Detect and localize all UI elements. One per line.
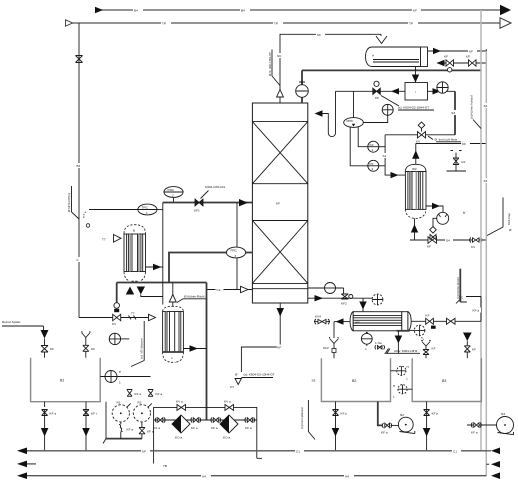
- dosing pump R1: [112, 401, 133, 439]
- vessel KB1 (ion exchanger): [163, 306, 184, 362]
- svg-text:KV a: KV a: [224, 400, 231, 404]
- wire feed line into TRC oval: [84, 210, 138, 228]
- svg-text:KO a: KO a: [223, 436, 230, 440]
- control valve on VE-Wasser line: [112, 303, 121, 326]
- wire exchanger W3 right bottom line with instrument: [410, 325, 425, 336]
- instrument circle above B2: [361, 332, 372, 351]
- wire bottom header TB stubs: [17, 461, 500, 468]
- svg-text:FRC: FRC: [231, 249, 238, 253]
- svg-text:S4: S4: [484, 179, 488, 183]
- svg-text:(s) Kühlw-Vorlauf: (s) Kühlw-Vorlauf: [470, 95, 474, 119]
- instrument oval FRC 3: [226, 247, 245, 258]
- vessel W2 (vertical condenser): [405, 164, 426, 218]
- label Kuehlwasser connector bottom: [300, 400, 315, 440]
- wire bottom header A4: [17, 472, 500, 479]
- fitting 2: [191, 418, 201, 431]
- funnel vent on tank B1 top right: [81, 332, 95, 358]
- wire oval to downcomer: [157, 209, 163, 211]
- svg-text:2: 2: [372, 167, 374, 171]
- node feed arrow into column: [239, 199, 248, 206]
- svg-text:KF: KF: [277, 346, 281, 350]
- wire downcomer x162.8: [162, 203, 164, 305]
- wire vertical x385 to condenser inlet: [382, 135, 406, 179]
- vent to atmosphere (right): [447, 151, 467, 172]
- instrument oval PRC 2: [164, 187, 183, 203]
- svg-text:P: P: [119, 370, 121, 374]
- svg-text:(s) K004-D2-10H4-DT: (s) K004-D2-10H4-DT: [398, 106, 429, 110]
- svg-text:KF1: KF1: [194, 209, 200, 213]
- label Abw connector: [385, 349, 421, 354]
- svg-text:KF a: KF a: [154, 426, 161, 430]
- svg-text:KF a: KF a: [473, 309, 480, 313]
- svg-text:KF: KF: [427, 245, 431, 249]
- svg-text:KF a: KF a: [245, 426, 252, 430]
- svg-text:(s) VE-Wasser: (s) VE-Wasser: [140, 338, 144, 359]
- tank B1: [31, 358, 101, 402]
- node exchanger B bottom arrows: [126, 287, 145, 295]
- filter skid frame: [154, 407, 262, 463]
- svg-text:KF: KF: [91, 347, 95, 351]
- svg-text:B1: B1: [60, 379, 64, 383]
- wire dark circulation from column left: [117, 253, 253, 421]
- svg-text:C1: C1: [453, 450, 457, 454]
- svg-text:A4: A4: [345, 475, 349, 479]
- svg-text:1: 1: [119, 381, 121, 385]
- svg-text:KF: KF: [375, 96, 379, 100]
- svg-text:TP: TP: [162, 22, 166, 26]
- wire vessel outlet right: [183, 345, 206, 351]
- svg-text:KF: KF: [432, 347, 436, 351]
- wire left feed line Reinst-Spuelw to tank B1: [2, 320, 54, 358]
- svg-text:SC: SC: [277, 54, 282, 58]
- level instrument LSA2 between tanks: [393, 384, 412, 399]
- svg-text:KV4: KV4: [315, 315, 321, 319]
- svg-text:W3: W3: [355, 321, 360, 325]
- wire feed downcomer x237: [236, 203, 238, 290]
- svg-text:KF a: KF a: [147, 430, 154, 434]
- box K1 (separator box): [405, 83, 428, 101]
- label 604-Cap connector: [487, 198, 512, 236]
- svg-text:Ø S: 300-H49-ST: Ø S: 300-H49-ST: [268, 52, 272, 76]
- svg-text:1: 1: [372, 148, 374, 152]
- svg-text:K004-C05-101: K004-C05-101: [205, 185, 225, 189]
- svg-text:KF a: KF a: [191, 426, 198, 430]
- svg-text:KF p: KF p: [432, 412, 439, 416]
- svg-text:L: L: [393, 395, 395, 399]
- wire gray recirculation line from column top: [302, 70, 481, 103]
- svg-text:KF: KF: [469, 49, 473, 53]
- svg-text:KF2: KF2: [341, 302, 347, 306]
- svg-text:B2: B2: [352, 379, 356, 383]
- svg-text:A4: A4: [202, 475, 206, 479]
- svg-text:T7: T7: [131, 312, 135, 316]
- svg-text:B: B: [133, 229, 135, 233]
- wire column feed line (dark): [163, 202, 253, 204]
- wire exchanger W3 left outlet: [314, 315, 350, 325]
- svg-text:KO a: KO a: [175, 436, 182, 440]
- heat exchanger W3 (horizontal): [350, 312, 411, 331]
- pump circle at box outlet: [437, 82, 448, 93]
- wire MHC to circle instrument: [363, 115, 387, 122]
- svg-text:KF a: KF a: [127, 428, 134, 432]
- svg-text:KF: KF: [472, 348, 476, 352]
- wire drum return line with valves: [437, 55, 487, 73]
- svg-text:H: H: [393, 384, 395, 388]
- svg-text:KF: KF: [142, 450, 146, 454]
- pump N3: [497, 412, 514, 435]
- svg-text:S4: S4: [446, 239, 450, 243]
- wire exchanger B right outlet: [146, 264, 163, 270]
- svg-text:TP: TP: [409, 22, 413, 26]
- svg-text:S1: S1: [383, 154, 387, 158]
- label T7 with open arrow: [102, 235, 121, 243]
- wire VE-Wasser feed line y317.5: [79, 312, 156, 321]
- svg-text:Ø Kühlw-Rückl: Ø Kühlw-Rückl: [184, 295, 205, 299]
- fitting 1: [154, 418, 166, 431]
- svg-text:1 Na: 1 Na: [375, 341, 382, 345]
- level instrument LSA1 between tanks: [391, 365, 409, 381]
- instrument circle NIR: [109, 333, 129, 344]
- svg-text:KF: KF: [370, 143, 374, 147]
- circle instrument PF: [368, 160, 385, 171]
- vessel A1 (horizontal drum): [366, 47, 428, 67]
- svg-text:KT: KT: [230, 385, 234, 389]
- svg-text:KF p: KF p: [341, 412, 348, 416]
- wire exchanger B bottom to vessel downcomer: [141, 295, 163, 297]
- wire gray main header x481: [480, 10, 482, 451]
- wire B2 middle outlet to pump N2: [378, 402, 399, 435]
- svg-text:S3: S3: [451, 111, 455, 115]
- svg-text:W2: W2: [412, 167, 417, 171]
- svg-text:KF: KF: [317, 33, 321, 37]
- wire drop into exchanger W3: [359, 298, 366, 312]
- wire drum bottom outlet: [412, 67, 419, 83]
- pump P1 at tank B1: [100, 370, 150, 385]
- svg-text:T7: T7: [102, 238, 106, 242]
- wire MHC branch to circle KF1: [358, 127, 368, 147]
- wire cooling line right y321 to header: [411, 296, 481, 329]
- label NH4-OH leader: [67, 186, 79, 219]
- pump N2: [398, 413, 414, 434]
- svg-text:Ø NH4-OH(s): Ø NH4-OH(s): [67, 193, 71, 212]
- svg-text:3: 3: [235, 254, 237, 258]
- svg-text:R1: R1: [117, 401, 121, 405]
- svg-text:KF a: KF a: [50, 412, 57, 416]
- filter F1: [172, 400, 190, 440]
- wire exchanger W3 bottom drop to Abw: [395, 331, 403, 354]
- svg-text:PRC: PRC: [168, 188, 175, 192]
- svg-text:KF a: KF a: [135, 392, 142, 396]
- svg-text:KF a: KF a: [156, 392, 163, 396]
- svg-text:KF a: KF a: [211, 426, 218, 430]
- instrument oval TRC 1: [138, 204, 157, 215]
- svg-text:KF2: KF2: [323, 346, 329, 350]
- svg-text:TB: TB: [163, 464, 167, 468]
- svg-text:KF: KF: [466, 55, 470, 59]
- wire bottom header C1: [17, 448, 500, 455]
- wire column right line y288 to valve: [308, 283, 353, 306]
- wire condenser right outlet to pump: [426, 203, 449, 240]
- svg-text:S4: S4: [484, 104, 488, 108]
- svg-text:KF: KF: [462, 142, 466, 146]
- funnel drain into tank B3 left: [421, 338, 435, 359]
- wire control line y134.8: [385, 134, 455, 136]
- tank B1 bottom outlet right: [82, 402, 97, 451]
- wire reflux loop seal: [315, 91, 336, 136]
- wire header line B4 (top): [95, 5, 511, 15]
- svg-text:TRC: TRC: [142, 206, 149, 210]
- svg-text:KF: KF: [444, 55, 448, 59]
- wire MHC branch to circle PF2: [350, 127, 368, 166]
- svg-text:Abw: K004-10H4: Abw: K004-10H4: [394, 349, 418, 353]
- svg-text:TP: TP: [274, 22, 278, 26]
- wire overhead vapour line: [277, 32, 382, 103]
- tank B2: [311, 358, 391, 401]
- funnel drain into tank B2: [323, 322, 339, 359]
- svg-text:1: 1: [146, 211, 148, 215]
- wire gray main header x486: [485, 49, 487, 475]
- wire condenser top to cooling return: [412, 141, 486, 164]
- svg-text:(s) Kühl-Wasser: (s) Kühl-Wasser: [300, 407, 304, 429]
- wire vessel top vent with open triangle: [169, 283, 176, 307]
- control valve KF1 on feed line: [194, 185, 225, 213]
- tank B1 bottom outlet left: [41, 402, 57, 451]
- circle instrument KF: [368, 141, 385, 152]
- label K004 bottom connector KT: [230, 373, 275, 390]
- svg-text:KF: KF: [462, 160, 466, 164]
- svg-text:2: 2: [172, 194, 174, 198]
- svg-text:L: L: [407, 377, 409, 381]
- column KO1 (packed column): [252, 103, 307, 303]
- circle instrument on y298: [372, 294, 383, 305]
- svg-text:C2: C2: [217, 288, 221, 292]
- svg-text:Reinst-Spülw.: Reinst-Spülw.: [2, 320, 21, 324]
- svg-text:KF a: KF a: [471, 431, 478, 435]
- svg-text:N3: N3: [501, 412, 505, 416]
- tank B2 bottom outlet: [332, 402, 348, 451]
- svg-text:604-Cap: 604-Cap: [507, 213, 511, 225]
- valves above dosing pumps: [127, 390, 163, 397]
- svg-text:KF: KF: [50, 347, 54, 351]
- pump symbol on column top: [296, 81, 309, 98]
- wire vertical feed line x79: [76, 23, 83, 318]
- wire box outlet right: [428, 88, 456, 94]
- wire pump suction header under B1: [103, 402, 142, 444]
- fitting 4: [245, 418, 255, 431]
- wire bottom feed into column with open arrow: [207, 286, 253, 292]
- label VE-Wasser connector: [131, 321, 144, 367]
- label 300-H49-ST leader: [268, 50, 280, 86]
- svg-text:B3: B3: [442, 379, 446, 383]
- svg-text:KF: KF: [276, 202, 280, 206]
- node funnel into drum: [376, 34, 387, 43]
- label Kuehlw-Vorlauf connector: [470, 95, 490, 183]
- fitting label above B2 right: [375, 341, 385, 349]
- svg-text:KF: KF: [426, 314, 430, 318]
- dosing pump R2: [133, 401, 154, 439]
- svg-text:C1: C1: [296, 450, 300, 454]
- svg-text:S5: S5: [312, 379, 316, 383]
- tank B3 bottom outlet: [423, 402, 439, 451]
- wire header line TP (second top): [66, 18, 512, 28]
- instrument oval MHC: [344, 91, 364, 127]
- wire column bottom outlet: [241, 303, 284, 372]
- svg-text:(s): K004-D2-10H4-DT: (s): K004-D2-10H4-DT: [244, 373, 275, 377]
- svg-text:R2: R2: [138, 401, 142, 405]
- label K004-D2-10H4-DT: [398, 106, 434, 111]
- svg-text:PF: PF: [370, 162, 374, 166]
- tank B3: [412, 358, 481, 401]
- wire condenser bottom cooling supply: [410, 218, 486, 249]
- label S3 on x455: [451, 110, 459, 115]
- svg-text:KV a: KV a: [176, 400, 183, 404]
- svg-text:MHC: MHC: [347, 119, 355, 123]
- valve on x79 line: [76, 56, 83, 63]
- label Kuehlw leader at vessel: [177, 295, 206, 303]
- wire column bottoms line y298: [308, 295, 372, 301]
- wire filter line y420: [154, 419, 257, 421]
- heat exchanger B (left vertical): [124, 225, 146, 282]
- svg-text:KF: KF: [413, 9, 417, 13]
- wire drum overhead out to right: [428, 48, 487, 54]
- svg-text:B4: B4: [241, 9, 245, 13]
- circle instrument above: [382, 104, 393, 115]
- svg-text:H: H: [407, 365, 409, 369]
- svg-text:N2: N2: [400, 413, 404, 417]
- svg-text:KF r: KF r: [91, 412, 97, 416]
- wire dark drop x455: [454, 91, 456, 135]
- fitting 3: [211, 418, 221, 431]
- control valve KV on line y134.8: [416, 122, 467, 144]
- label Kuehlw-Ruecklauf connector: [456, 269, 467, 304]
- wire reflux line y91: [336, 88, 406, 94]
- valve with actuator on reflux line: [373, 81, 399, 106]
- filter F2: [220, 400, 238, 440]
- feed arrow into tank B3: [463, 333, 476, 359]
- svg-text:B4: B4: [134, 9, 138, 13]
- svg-text:Ø Inst-Luft-Netz: Ø Inst-Luft-Netz: [435, 138, 458, 142]
- svg-text:KF a: KF a: [381, 431, 388, 435]
- svg-text:B1: B1: [77, 164, 81, 168]
- node drum line corner into header: [485, 49, 487, 51]
- wire suction to pump N3: [467, 423, 497, 435]
